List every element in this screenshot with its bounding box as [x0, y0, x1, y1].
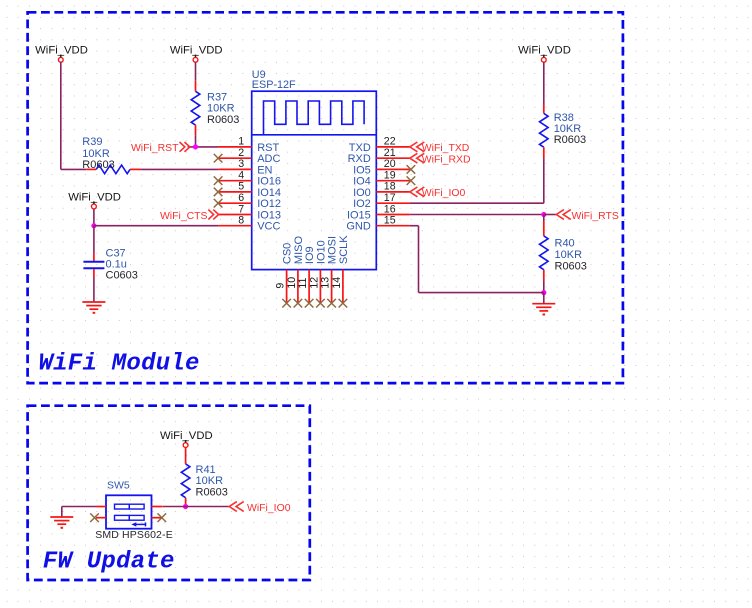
svg-text:R0603: R0603 [196, 486, 228, 498]
svg-text:10KR: 10KR [82, 148, 110, 160]
svg-text:8: 8 [238, 215, 244, 227]
svg-text:20: 20 [384, 158, 396, 170]
svg-text:2: 2 [238, 147, 244, 159]
svg-text:R41: R41 [196, 464, 216, 476]
svg-text:R38: R38 [554, 112, 574, 124]
svg-text:22: 22 [384, 136, 396, 148]
svg-text:13: 13 [320, 277, 332, 289]
svg-text:MOSI: MOSI [327, 236, 339, 264]
svg-text:6: 6 [238, 192, 244, 204]
svg-text:15: 15 [384, 215, 396, 227]
svg-text:RST: RST [257, 142, 279, 154]
svg-text:MISO: MISO [293, 236, 305, 265]
svg-text:10: 10 [286, 277, 298, 289]
svg-text:IO16: IO16 [257, 176, 281, 188]
svg-text:WiFi_VDD: WiFi_VDD [160, 430, 213, 442]
svg-text:IO10: IO10 [315, 240, 327, 264]
svg-text:WiFi_VDD: WiFi_VDD [68, 191, 121, 203]
svg-text:3: 3 [238, 158, 244, 170]
svg-text:ESP-12F: ESP-12F [252, 79, 296, 91]
svg-text:IO12: IO12 [257, 198, 281, 210]
svg-text:7: 7 [238, 203, 244, 215]
svg-text:IO9: IO9 [304, 246, 316, 264]
svg-text:18: 18 [384, 181, 396, 193]
svg-text:12: 12 [308, 277, 320, 289]
svg-text:WiFi_IO0: WiFi_IO0 [247, 503, 291, 514]
svg-text:WiFi_VDD: WiFi_VDD [35, 45, 88, 57]
svg-text:14: 14 [331, 277, 343, 289]
svg-text:WiFi_IO0: WiFi_IO0 [422, 188, 466, 199]
svg-text:IO13: IO13 [257, 210, 281, 222]
svg-text:10KR: 10KR [554, 123, 582, 135]
svg-text:WiFi_VDD: WiFi_VDD [170, 45, 223, 57]
svg-text:WiFi_RST: WiFi_RST [131, 143, 179, 154]
svg-text:10KR: 10KR [207, 103, 235, 115]
svg-text:16: 16 [384, 203, 396, 215]
svg-text:EN: EN [257, 164, 272, 176]
svg-text:IO15: IO15 [347, 210, 371, 222]
svg-text:WiFi_CTS: WiFi_CTS [160, 211, 208, 222]
svg-text:R39: R39 [82, 136, 102, 148]
svg-text:11: 11 [297, 277, 309, 288]
svg-text:IO4: IO4 [353, 176, 371, 188]
svg-text:CS0: CS0 [282, 243, 294, 264]
svg-text:R37: R37 [207, 92, 227, 104]
svg-text:GND: GND [346, 221, 371, 233]
svg-text:5: 5 [238, 181, 244, 193]
svg-text:FW Update: FW Update [43, 549, 175, 576]
svg-text:IO2: IO2 [353, 198, 371, 210]
svg-text:SCLK: SCLK [338, 235, 350, 264]
svg-text:SW5: SW5 [107, 480, 130, 492]
svg-text:C37: C37 [106, 247, 126, 259]
svg-text:R40: R40 [555, 237, 575, 249]
svg-text:WiFi_VDD: WiFi_VDD [518, 45, 571, 57]
svg-text:R0603: R0603 [555, 261, 587, 273]
svg-text:1: 1 [238, 136, 244, 148]
svg-text:ADC: ADC [257, 153, 280, 165]
svg-text:WiFi Module: WiFi Module [39, 350, 200, 377]
svg-text:9: 9 [275, 283, 287, 289]
svg-text:IO14: IO14 [257, 187, 281, 199]
svg-text:SMD HPS602-E: SMD HPS602-E [95, 529, 173, 541]
svg-text:R0603: R0603 [207, 114, 239, 126]
svg-text:WiFi_TXD: WiFi_TXD [422, 143, 470, 154]
svg-text:C0603: C0603 [106, 270, 138, 282]
svg-text:R0603: R0603 [82, 159, 114, 171]
svg-text:R0603: R0603 [554, 134, 586, 146]
svg-text:WiFi_RXD: WiFi_RXD [422, 155, 471, 166]
svg-text:IO0: IO0 [353, 187, 371, 199]
svg-text:TXD: TXD [349, 142, 371, 154]
svg-text:WiFi_RTS: WiFi_RTS [572, 211, 619, 222]
svg-text:10KR: 10KR [196, 475, 224, 487]
svg-text:19: 19 [384, 170, 396, 182]
svg-text:VCC: VCC [257, 221, 280, 233]
svg-text:10KR: 10KR [555, 249, 583, 261]
svg-text:0.1u: 0.1u [106, 259, 127, 271]
svg-text:RXD: RXD [348, 153, 371, 165]
svg-text:21: 21 [384, 147, 396, 159]
svg-text:17: 17 [384, 192, 396, 204]
svg-text:IO5: IO5 [353, 164, 371, 176]
svg-text:4: 4 [238, 170, 244, 182]
